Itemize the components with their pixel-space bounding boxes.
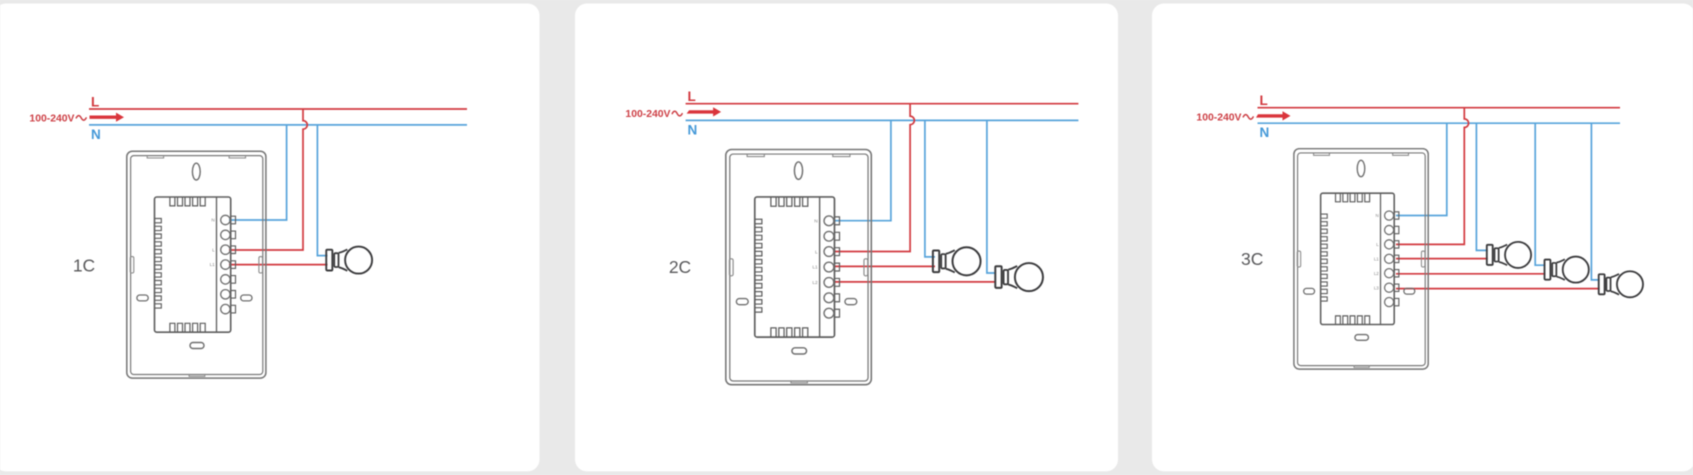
svg-text:N: N	[91, 127, 101, 142]
wire L line	[1258, 107, 1621, 109]
PANEL3	[1196, 93, 1643, 369]
wire L line	[89, 108, 467, 110]
svg-text:N: N	[1260, 125, 1270, 140]
wire red L2 to lamp 2	[1396, 273, 1545, 275]
wire blue N to lamp 1	[925, 120, 935, 257]
svg-text:N: N	[1376, 213, 1379, 218]
wire red L2 to lamp 2	[833, 281, 996, 283]
wire blue N to lamp 1	[1476, 123, 1487, 250]
wire red L1 to lamp 1	[833, 265, 935, 267]
PANEL1	[29, 94, 467, 378]
lamp E3	[1599, 271, 1643, 297]
wire blue N to lamp	[317, 125, 327, 256]
svg-text:L2: L2	[1374, 271, 1379, 276]
svg-text:2C: 2C	[669, 257, 691, 277]
wire red L1 to lamp	[229, 264, 328, 266]
supply tilde	[1243, 115, 1253, 120]
svg-text:1C: 1C	[73, 256, 95, 276]
lamp E1	[933, 247, 981, 275]
wire blue N to switch	[229, 125, 287, 220]
supply arrow	[90, 113, 125, 122]
svg-text:L1: L1	[812, 265, 818, 271]
wire blue N to lamp 2	[987, 120, 996, 273]
card panel 2	[575, 4, 1118, 472]
wire blue N to lamp 3	[1591, 123, 1599, 280]
svg-text:100-240V: 100-240V	[625, 109, 670, 120]
wire N line	[686, 119, 1079, 121]
lamp E2	[995, 263, 1043, 291]
switch device 1C	[127, 151, 266, 378]
wire red L drop with hop	[833, 104, 914, 252]
lamp E1	[1487, 242, 1531, 268]
svg-text:L: L	[1260, 93, 1268, 108]
wire red L1 to lamp 1	[1396, 258, 1488, 260]
svg-text:L: L	[91, 94, 99, 109]
svg-text:N: N	[814, 218, 818, 224]
svg-text:L: L	[212, 247, 215, 252]
svg-text:100-240V: 100-240V	[1196, 112, 1241, 123]
lamp E2	[1545, 257, 1589, 283]
svg-text:L1: L1	[1374, 256, 1379, 261]
lamp E1	[326, 247, 372, 274]
svg-text:L: L	[688, 89, 696, 104]
supply tilde	[672, 111, 682, 116]
card panel 1	[0, 4, 540, 472]
svg-text:L2: L2	[812, 280, 818, 286]
wire N line	[89, 124, 467, 126]
wire blue N to switch	[833, 120, 891, 220]
wire red L drop with hop	[229, 109, 307, 250]
svg-text:L: L	[815, 249, 818, 255]
svg-text:N: N	[211, 218, 214, 223]
wire N line	[1258, 122, 1621, 124]
wire L line	[686, 103, 1079, 105]
wire blue N to lamp 2	[1535, 123, 1545, 265]
svg-text:L3: L3	[1374, 285, 1379, 290]
svg-text:L1: L1	[210, 262, 216, 267]
PANEL2	[625, 89, 1078, 385]
supply arrow	[1256, 111, 1291, 120]
supply arrow	[687, 107, 722, 116]
wire blue N to switch	[1396, 123, 1447, 215]
supply tilde	[76, 116, 86, 121]
card panel 3	[1152, 4, 1693, 472]
svg-text:N: N	[688, 122, 698, 137]
switch device 2C	[726, 150, 871, 385]
svg-text:3C: 3C	[1241, 249, 1263, 269]
wire red L3 to lamp 3	[1396, 288, 1600, 290]
switch device 3C	[1294, 149, 1428, 369]
wire red L drop with hop	[1396, 108, 1469, 245]
svg-text:100-240V: 100-240V	[29, 113, 74, 124]
